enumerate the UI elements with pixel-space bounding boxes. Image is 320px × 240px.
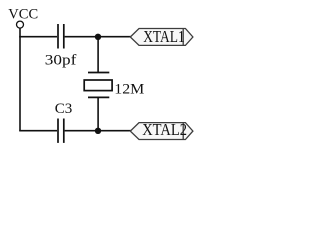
wire: left rail vertical from VCC circle down to bottom branch — [19, 28, 21, 131]
crystal Y1 12M — [84, 73, 144, 98]
svg-text:XTAL2: XTAL2 — [142, 120, 187, 139]
wire: bottom branch from rail to capacitor C3 left plate — [19, 130, 57, 132]
svg-text:C3: C3 — [55, 101, 73, 117]
wire: top branch from rail to capacitor left plate — [19, 36, 57, 38]
wire: node A down to crystal top plate — [97, 37, 99, 73]
wire: node B to XTAL2 port — [98, 130, 131, 132]
wire: capacitor right plate to node A — [65, 36, 98, 38]
svg-text:30pf: 30pf — [45, 53, 77, 69]
port XTAL1 — [130, 27, 193, 46]
VCC terminal circle — [17, 21, 24, 28]
wire: crystal bottom plate down to node B — [97, 97, 99, 130]
wire: node A to XTAL1 port — [98, 36, 131, 38]
wire: C3 right plate to node B — [65, 130, 98, 132]
port XTAL2 — [130, 120, 193, 139]
svg-text:XTAL1: XTAL1 — [143, 27, 185, 46]
capacitor 30pf — [45, 24, 77, 69]
node B (junction dot, bottom) — [95, 128, 101, 134]
svg-text:12M: 12M — [114, 82, 144, 98]
svg-text:VCC: VCC — [8, 6, 38, 22]
capacitor C3 — [55, 101, 73, 143]
node A (junction dot, top) — [95, 34, 101, 40]
